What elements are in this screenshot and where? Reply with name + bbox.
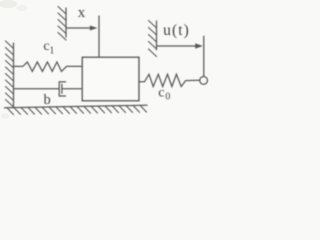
spring c1 [14,62,83,71]
svg-text:c: c [158,85,164,100]
damper b cylinder [59,82,65,96]
ground line [5,105,148,108]
damper b rod right [62,88,82,90]
wire vertical to input node [203,36,205,76]
svg-text:b: b [44,92,51,108]
left fixed wall [13,43,15,108]
svg-text:1: 1 [49,45,54,56]
input node circle [200,77,208,85]
right reference wall for u(t) [156,21,158,50]
u(t) arrowhead [195,43,203,48]
mass block M [82,57,139,100]
svg-text:u(t): u(t) [163,22,190,39]
ground hatching [7,105,147,114]
damper b rod left [14,88,60,90]
right wall hatching [149,21,157,57]
svg-text:x: x [78,5,86,21]
x displacement arrow [67,27,91,29]
u(t) input arrow [157,45,196,47]
spring c0 [139,74,200,86]
top reference wall for x [65,8,67,37]
left wall hatching [6,41,14,107]
svg-text:0: 0 [165,92,170,103]
damper b piston [61,84,63,93]
x arrowhead [90,26,98,31]
wire vertical to mass top [98,16,100,57]
top wall hatching [58,7,66,41]
